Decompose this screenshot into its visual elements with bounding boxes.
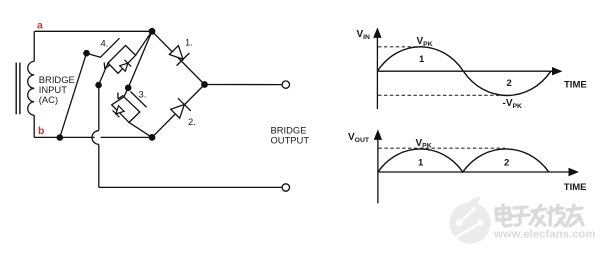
plot VIN: y axis xyxy=(376,34,378,109)
wire: top node to right node (through D1) xyxy=(152,31,205,84)
diode D3 box xyxy=(112,97,140,123)
svg-text:3.: 3. xyxy=(139,88,147,99)
svg-text:4.: 4. xyxy=(101,37,109,48)
wire: left vertical below coil xyxy=(33,115,35,137)
dashed line +Vpk xyxy=(378,46,423,48)
svg-text:(AC): (AC) xyxy=(39,94,58,105)
current arrow at D3 box entry xyxy=(118,95,123,99)
diode D2 xyxy=(171,105,185,119)
transformer core (two lines) xyxy=(15,63,17,115)
diode D4 box xyxy=(108,45,136,73)
output terminal (bottom) xyxy=(282,184,289,191)
wire: vertical from left node with hop over b wire xyxy=(98,85,100,131)
switch S4 open arm xyxy=(87,38,120,57)
wire: diagonal from b wire to switch 4 pivot xyxy=(60,53,87,137)
current arrow at D4 box exit xyxy=(105,65,110,69)
output terminal (top) xyxy=(282,81,289,88)
bridge right node dot xyxy=(201,81,208,88)
plot VOUT: y axis xyxy=(377,136,379,203)
svg-text:b: b xyxy=(38,125,44,137)
svg-text:TIME: TIME xyxy=(564,182,587,193)
svg-text:2: 2 xyxy=(504,157,509,168)
junction dot on b wire xyxy=(57,134,64,141)
wire: left vertical wire (a side) xyxy=(33,31,35,61)
wire: switch 3 pivot to top node xyxy=(128,31,152,88)
wire: D4 box to left bridge node xyxy=(99,63,108,85)
wire: bottom wire b to bridge bottom node (broken at hop) xyxy=(34,136,94,138)
svg-text:www.elecfans.com: www.elecfans.com xyxy=(493,229,596,241)
diode D3 symbol xyxy=(116,106,124,114)
svg-text:2: 2 xyxy=(507,78,512,89)
wire: top wire from transformer to bridge top node xyxy=(35,30,152,32)
svg-text:1: 1 xyxy=(418,157,424,168)
bridge top node dot xyxy=(149,28,156,35)
bridge bottom node dot xyxy=(149,134,156,141)
svg-text:OUTPUT: OUTPUT xyxy=(271,134,310,145)
wire: bottom node to right node (through D2) xyxy=(152,85,205,138)
transformer winding (secondary coil) xyxy=(28,61,34,115)
wire: right node to top output terminal xyxy=(205,84,283,86)
switch S3 open arm xyxy=(131,92,147,108)
wire: bottom output wire xyxy=(99,186,282,188)
text: BRIDGE OUTPUT xyxy=(271,125,310,146)
dashed line Vpk (bottom) xyxy=(379,147,506,149)
wire: D3 box to bottom bridge node xyxy=(129,122,152,137)
plot VIN: x axis xyxy=(377,70,553,72)
plot VOUT: x axis xyxy=(378,171,570,173)
sine wave VIN xyxy=(377,47,550,96)
svg-text:2.: 2. xyxy=(188,116,196,127)
rectified humps VOUT xyxy=(378,149,549,172)
junction dot switch 4 pivot xyxy=(83,50,90,57)
wire: top node to D4 box xyxy=(136,31,152,55)
left bridge node dot xyxy=(95,82,102,89)
text: BRIDGE INPUT (AC) xyxy=(39,74,75,105)
node: switch 3 pivot dot xyxy=(125,85,132,92)
wire: switch 3 pivot to D3 box xyxy=(124,88,128,97)
watermark chinese text (stylized strokes) xyxy=(496,208,510,220)
svg-text:a: a xyxy=(37,20,43,32)
svg-text:TIME: TIME xyxy=(564,80,587,91)
diode D4 symbol xyxy=(120,63,128,71)
dashed line -Vpk xyxy=(378,94,509,96)
svg-text:1.: 1. xyxy=(185,37,193,48)
svg-text:1: 1 xyxy=(419,54,425,65)
watermark logo circle xyxy=(449,197,490,244)
diode D1 xyxy=(169,46,183,60)
